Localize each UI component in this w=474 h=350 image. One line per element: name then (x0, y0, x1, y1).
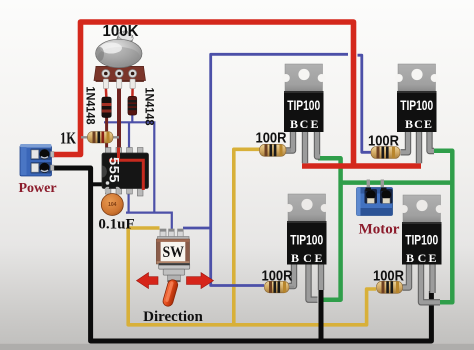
svg-text:C: C (414, 117, 423, 131)
svg-text:100R: 100R (368, 134, 399, 150)
svg-text:C: C (303, 251, 312, 265)
svg-text:E: E (310, 117, 318, 131)
svg-text:1K: 1K (60, 128, 77, 147)
svg-text:104: 104 (108, 202, 117, 208)
svg-text:555: 555 (107, 157, 123, 183)
svg-text:100R: 100R (256, 131, 287, 147)
svg-text:100K: 100K (103, 23, 139, 40)
svg-text:C: C (300, 117, 309, 131)
svg-text:B: B (291, 251, 299, 265)
svg-text:0.1uF: 0.1uF (98, 217, 134, 233)
svg-text:100R: 100R (373, 269, 404, 285)
svg-text:B: B (406, 251, 414, 265)
svg-text:100R: 100R (262, 269, 293, 285)
svg-text:1N4148: 1N4148 (143, 88, 157, 126)
svg-text:E: E (428, 251, 436, 265)
svg-text:SW: SW (162, 244, 184, 261)
svg-text:B: B (290, 117, 298, 131)
svg-text:Motor: Motor (359, 222, 400, 238)
svg-text:TIP100: TIP100 (400, 97, 433, 113)
svg-text:Direction: Direction (143, 309, 203, 325)
svg-text:E: E (424, 117, 432, 131)
svg-text:TIP100: TIP100 (290, 232, 323, 248)
svg-text:C: C (418, 251, 427, 265)
svg-text:TIP100: TIP100 (287, 97, 320, 113)
svg-text:Power: Power (18, 181, 56, 196)
svg-text:1N4148: 1N4148 (84, 87, 98, 125)
svg-text:E: E (314, 251, 322, 265)
svg-text:B: B (405, 117, 413, 131)
svg-text:TIP100: TIP100 (405, 232, 438, 248)
